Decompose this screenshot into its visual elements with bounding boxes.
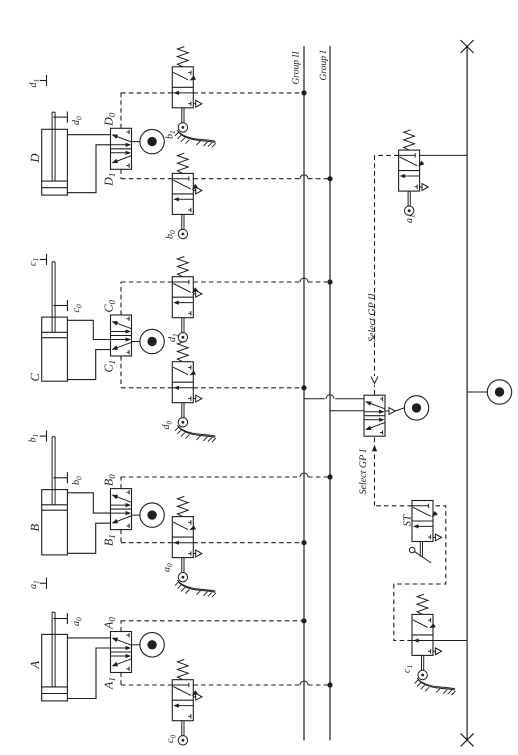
wire signal B1 upper <box>121 542 172 544</box>
wire signal B1 lower <box>193 542 304 544</box>
wire signal C1 upper <box>121 387 172 389</box>
node Select GP II arrow <box>371 377 378 384</box>
wire cylinder B rod-side <box>67 493 110 513</box>
svg-text:b0: b0 <box>165 230 178 239</box>
cylinder C <box>42 317 68 381</box>
valve B (5/2 double pilot) <box>111 489 132 530</box>
wire signal A0 <box>121 620 304 622</box>
svg-text:ST: ST <box>402 514 414 527</box>
source circle valve A <box>132 644 140 646</box>
wire cylinder C cap-side <box>67 350 110 380</box>
wire pilot stub C1 <box>120 356 122 388</box>
wire signal D1 upper <box>121 178 172 180</box>
wire ST to select GP I <box>375 505 413 507</box>
wire cylinder A rod-side <box>67 637 110 639</box>
wire pilot stub A1 <box>120 673 122 686</box>
limit valve b0 (roller) <box>172 173 193 214</box>
cylinder B <box>42 490 68 555</box>
wire cylinder A cap-side <box>67 648 110 699</box>
wire signal C1 lower <box>193 387 304 389</box>
wire pilot stub D0 <box>120 93 122 128</box>
node position marker d0 <box>53 116 67 118</box>
wire changeover to Group II <box>304 398 325 400</box>
svg-text:Select GP I: Select GP I <box>358 448 369 494</box>
node position marker d1 <box>40 80 47 82</box>
wire main air supply line <box>466 47 468 740</box>
source circle valve D <box>132 141 140 143</box>
node Select GP I arrow <box>372 445 377 452</box>
node position marker a1 <box>40 582 47 584</box>
changeover exhaust and source <box>385 410 389 412</box>
svg-text:D0: D0 <box>102 112 118 127</box>
valve A (5/2 double pilot) <box>111 632 132 673</box>
svg-text:Group II: Group II <box>291 51 301 85</box>
valve ST (3/2 manual start) <box>412 501 433 542</box>
svg-text:a1: a1 <box>28 580 41 589</box>
wire cylinder C rod-side <box>67 320 110 339</box>
svg-text:a1: a1 <box>404 214 417 223</box>
wire Group II bus line <box>303 46 305 741</box>
wire changeover right pilot stub <box>374 385 376 394</box>
svg-text:A1: A1 <box>102 677 118 690</box>
wire select GP II path <box>375 154 399 156</box>
wire signal D0 upper <box>121 92 172 94</box>
svg-text:C1: C1 <box>102 360 118 373</box>
node position marker b1 <box>40 435 47 437</box>
valve D (5/2 double pilot) <box>111 128 132 169</box>
svg-text:d1: d1 <box>167 333 180 342</box>
wire pilot stub C0 <box>120 282 122 315</box>
node position marker c1 <box>40 259 47 261</box>
limit valve d1 (roller) <box>172 277 193 318</box>
limit valve a0 (one-way roller) <box>172 517 193 558</box>
wire cylinder D cap-side <box>67 145 110 193</box>
wire pilot stub D1 <box>120 169 122 178</box>
wire signal D0 lower <box>193 92 304 94</box>
svg-text:c1: c1 <box>402 665 415 673</box>
wire signal A1 lower <box>193 684 300 686</box>
svg-text:Select GP II: Select GP II <box>367 293 378 342</box>
wire signal C0 upper <box>121 281 172 283</box>
limit valve c0 (roller) <box>172 680 193 721</box>
wire pilot stub B0 <box>120 477 122 489</box>
wire pilot stub B1 <box>120 530 122 543</box>
svg-text:B1: B1 <box>102 534 118 546</box>
svg-text:C: C <box>28 373 42 382</box>
svg-text:d0: d0 <box>161 421 174 430</box>
valve C (5/2 double pilot) <box>111 315 132 356</box>
svg-text:B0: B0 <box>102 474 118 486</box>
limit valve d0 (one-way roller) <box>172 362 193 403</box>
svg-text:A0: A0 <box>102 617 118 630</box>
source circle valve B <box>132 514 140 516</box>
wire signal B0 <box>121 476 300 478</box>
source circle main supply <box>467 391 487 393</box>
wire changeover left pilot stub <box>374 436 376 442</box>
wire a1 to supply <box>420 154 468 156</box>
svg-text:b0: b0 <box>71 476 84 485</box>
node position marker b0 <box>53 477 67 479</box>
svg-text:d0: d0 <box>71 116 84 125</box>
svg-text:C0: C0 <box>102 299 118 312</box>
source circle valve C <box>132 341 140 343</box>
svg-text:c1: c1 <box>28 258 41 266</box>
wire signal A1 upper <box>121 684 172 686</box>
supply line end cross left <box>461 733 474 746</box>
wire signal D1 lower <box>193 178 300 180</box>
svg-text:b1: b1 <box>165 130 178 139</box>
svg-text:a0: a0 <box>71 617 84 626</box>
wire c1 to ST path <box>394 506 446 641</box>
svg-text:D: D <box>28 153 42 163</box>
valve group changeover (5/2) <box>364 395 385 436</box>
node position marker a0 <box>53 618 67 620</box>
wire pilot stub A0 <box>120 621 122 632</box>
cylinder A <box>42 634 68 701</box>
cylinder D <box>42 129 68 195</box>
wire changeover to Group I <box>330 410 364 412</box>
svg-text:b1: b1 <box>28 434 41 443</box>
svg-text:A: A <box>28 661 42 670</box>
svg-text:c0: c0 <box>165 735 178 743</box>
valve ST manual button <box>419 542 421 557</box>
svg-text:d1: d1 <box>28 79 41 88</box>
svg-text:c0: c0 <box>71 304 84 312</box>
svg-text:a0: a0 <box>162 563 175 572</box>
wire signal C0 lower <box>193 281 300 283</box>
svg-text:B: B <box>28 524 42 532</box>
wire cylinder B cap-side <box>67 523 110 553</box>
wire cylinder D rod-side <box>67 134 110 136</box>
svg-text:Group I: Group I <box>319 50 329 81</box>
limit valve c1 (one-way roller) <box>412 614 433 655</box>
wire c1 to supply <box>433 640 467 642</box>
limit valve b1 (one-way roller) <box>172 67 193 108</box>
limit valve a1 (roller) <box>399 150 420 191</box>
wire Group I bus line <box>329 46 331 741</box>
supply line end cross right <box>461 40 474 53</box>
node position marker c0 <box>53 305 67 307</box>
svg-text:D1: D1 <box>102 173 118 187</box>
